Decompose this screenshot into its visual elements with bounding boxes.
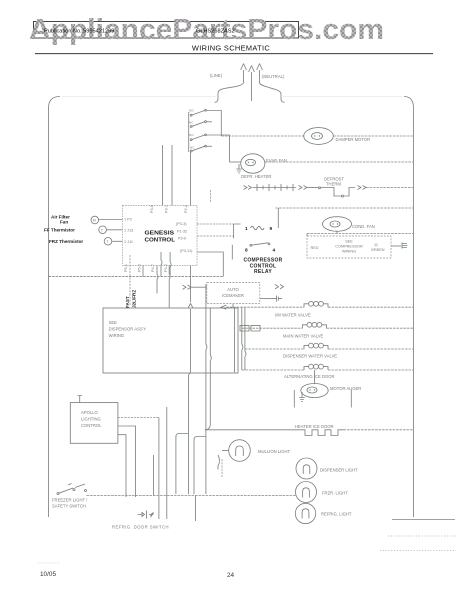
wire genesis bottom pin A xyxy=(142,266,144,277)
dashed stub right of genesis top xyxy=(210,190,212,202)
switch S2 NO contact xyxy=(189,133,206,140)
compressor control relay coil xyxy=(245,226,273,232)
auger bracket left xyxy=(293,390,295,408)
wire left drop A with jog xyxy=(161,252,162,277)
compressor control relay contact xyxy=(245,243,276,254)
svg-text:RED: RED xyxy=(311,246,319,250)
evap fan motor xyxy=(241,154,265,173)
wire bottom right exit xyxy=(392,519,455,521)
wire dispenser water valve to border xyxy=(328,348,414,350)
dispenser assembly box xyxy=(103,308,238,373)
wire stub down 2 xyxy=(166,496,168,520)
wire switch S1 NC stub xyxy=(206,121,212,123)
svg-text:NC: NC xyxy=(190,146,195,150)
wire genesis P3-11 xyxy=(197,252,223,277)
damper motor wire left xyxy=(221,135,303,137)
power plug ground prong xyxy=(249,66,255,102)
bottom right dotted line 2 xyxy=(380,550,456,552)
svg-text:P3-9: P3-9 xyxy=(178,237,186,241)
wire chevron to icemaker box xyxy=(191,286,207,288)
svg-text:WIRING: WIRING xyxy=(342,250,356,254)
dispenser water valve coil xyxy=(304,343,328,349)
svg-text:FF Thermistor: FF Thermistor xyxy=(44,228,75,233)
svg-text:FRZR. LIGHT: FRZR. LIGHT xyxy=(322,491,348,496)
wire long neutral bus across page xyxy=(49,276,224,278)
svg-text:DISPENSER WATER VALVE: DISPENSER WATER VALVE xyxy=(283,354,337,359)
svg-text:(P3-3): (P3-3) xyxy=(176,222,187,226)
valve bus wire A along dispenser box edge xyxy=(242,307,243,370)
svg-text:NO: NO xyxy=(189,133,194,137)
svg-text:1: 1 xyxy=(245,226,248,232)
wire apollo out 2 xyxy=(118,426,136,497)
wire light riser 3 xyxy=(166,407,168,496)
svg-text:1 P2: 1 P2 xyxy=(124,217,132,221)
cabinet outline right border xyxy=(404,97,414,518)
wire stub down 3 xyxy=(195,496,197,522)
svg-text:FREEZER LIGHT /: FREEZER LIGHT / xyxy=(52,498,88,503)
svg-text:P5-1: P5-1 xyxy=(124,264,128,272)
heater ice door element xyxy=(301,430,344,436)
svg-text:WIRING SCHEMATIC: WIRING SCHEMATIC xyxy=(192,44,270,53)
svg-text:DISPENSOR ASS'Y: DISPENSOR ASS'Y xyxy=(109,327,147,332)
footer dots xyxy=(38,562,60,564)
wire riser with jog through dispenser box xyxy=(206,284,207,494)
svg-text:P4-7: P4-7 xyxy=(151,264,155,272)
svg-text:Fan: Fan xyxy=(60,220,68,225)
motor auger xyxy=(301,370,328,398)
svg-text:REFRIG. DOOR SWITCH: REFRIG. DOOR SWITCH xyxy=(112,525,169,530)
svg-text:REFRIG. LIGHT: REFRIG. LIGHT xyxy=(321,512,352,517)
wire main water valve row xyxy=(242,327,303,329)
wire left drop B with jog xyxy=(170,252,171,277)
svg-text:24: 24 xyxy=(227,572,235,579)
air filter fan motor M xyxy=(51,215,99,225)
condenser fan motor xyxy=(323,217,352,232)
compressor wiring dashed box xyxy=(307,236,391,258)
refrigerator light xyxy=(295,503,315,523)
wire switch S2 to evap line xyxy=(206,135,229,162)
svg-text:SEE: SEE xyxy=(109,320,118,325)
svg-text:AUTO: AUTO xyxy=(227,287,239,292)
wire light riser loop A xyxy=(176,434,189,495)
alternating ice door coil xyxy=(304,364,328,370)
label SEE DISPENSOR ASSY WIRING xyxy=(109,320,147,338)
svg-text:P3-6: P3-6 xyxy=(150,205,154,213)
connector plug symbol xyxy=(272,296,282,302)
svg-text:SEE: SEE xyxy=(345,240,353,244)
power plug line prong xyxy=(241,64,247,84)
wire switch S2 NC stub xyxy=(206,145,212,147)
svg-text:GENESIS: GENESIS xyxy=(145,231,175,237)
cabinet outline left border xyxy=(49,97,61,518)
svg-text:DAMPER MOTOR: DAMPER MOTOR xyxy=(336,137,371,142)
svg-text:(NEUTRAL): (NEUTRAL) xyxy=(262,74,285,79)
wire icemaker bottom stub xyxy=(232,304,234,308)
wire line lead from plug xyxy=(215,83,244,102)
ground at evap fan xyxy=(236,164,242,173)
wire heater ice door left with jog xyxy=(205,308,301,430)
svg-text:MAIN WATER VALVE: MAIN WATER VALVE xyxy=(283,334,324,339)
wire alternating ice door row xyxy=(242,369,304,371)
svg-text:10/05: 10/05 xyxy=(40,571,56,578)
svg-text:THERM.: THERM. xyxy=(326,182,342,187)
svg-text:(LINE): (LINE) xyxy=(210,73,223,78)
svg-text:Publication No. 5995421299: Publication No. 5995421299 xyxy=(44,29,114,35)
svg-text:J2L/FRZ: J2L/FRZ xyxy=(132,290,137,308)
svg-text:COMPRESSOR: COMPRESSOR xyxy=(335,245,363,249)
wire relay contact 8 lead xyxy=(231,245,233,260)
dispenser light xyxy=(296,458,317,479)
connector chevrons right of defrost thermostat xyxy=(358,186,367,190)
wire light riser 2 xyxy=(153,455,155,496)
wire apollo out dotted xyxy=(118,416,159,418)
cabinet outline faint top edge xyxy=(62,96,402,98)
wire light riser loop B xyxy=(194,437,206,495)
svg-text:HEATER ICE DOOR: HEATER ICE DOOR xyxy=(295,424,334,429)
wire neutral run xyxy=(276,207,414,209)
wire genesis bottom pin C xyxy=(169,266,170,309)
wire inside dispenser box xyxy=(234,308,236,372)
publication box xyxy=(34,22,299,39)
wire damper motor to right border xyxy=(333,135,413,137)
bottom right dotted line 1 xyxy=(388,535,456,537)
svg-text:(P3-11): (P3-11) xyxy=(180,249,193,253)
defrost heater element xyxy=(253,184,297,191)
wire apollo out 3 xyxy=(118,435,126,497)
svg-text:DEFR. HEATER: DEFR. HEATER xyxy=(241,174,271,179)
defrost thermostat xyxy=(307,187,355,197)
wire air filter fan to genesis xyxy=(99,219,123,221)
wire stub down 1 xyxy=(158,496,160,520)
svg-text:LIGHTING: LIGHTING xyxy=(81,417,101,422)
svg-text:RELAY: RELAY xyxy=(254,269,272,275)
svg-text:9: 9 xyxy=(270,226,273,232)
damper motor xyxy=(304,128,334,145)
svg-text:CONTROL: CONTROL xyxy=(81,423,102,428)
svg-text:1 J11: 1 J11 xyxy=(124,240,133,244)
wire genesis top pin 2 xyxy=(171,145,173,206)
svg-text:WIRING: WIRING xyxy=(109,333,125,338)
connector arrow into dispenser box xyxy=(188,304,192,308)
svg-text:M: M xyxy=(93,219,96,223)
svg-text:SAFETY SWITCH: SAFETY SWITCH xyxy=(52,504,86,509)
svg-text:1 J13: 1 J13 xyxy=(124,229,133,233)
wire relay coil 9 to neutral run xyxy=(277,208,279,228)
wire FF thermistor to genesis xyxy=(106,229,122,231)
wire light riser 1 xyxy=(158,417,160,495)
wire main water valve to border xyxy=(326,327,413,329)
wire icemaker to capacitor connector xyxy=(260,298,272,300)
inline connector blocks xyxy=(240,325,260,331)
svg-text:P3-1: P3-1 xyxy=(165,205,169,213)
svg-text:MOTOR AUGER: MOTOR AUGER xyxy=(330,386,361,391)
valve bus wire B along dispenser box edge xyxy=(245,307,246,370)
chassis ground xyxy=(402,243,408,249)
wire neutral lead from plug xyxy=(260,83,285,102)
genesis control box xyxy=(123,206,198,266)
svg-text:ICEMAKER: ICEMAKER xyxy=(222,293,244,298)
apollo box top stub xyxy=(78,396,83,403)
wire dispenser water valve row xyxy=(245,348,304,350)
wire cond fan row xyxy=(307,233,414,235)
freezer safety switch xyxy=(57,484,87,495)
svg-text:GLHS268ZAS2: GLHS268ZAS2 xyxy=(196,29,235,35)
wire evap fan to right border xyxy=(265,161,414,163)
FF thermistor xyxy=(44,226,106,234)
svg-text:11: 11 xyxy=(374,243,378,247)
svg-text:P2-2: P2-2 xyxy=(184,205,188,213)
svg-text:COND. FAN: COND. FAN xyxy=(352,224,375,229)
power plug neutral prong xyxy=(257,64,263,84)
label APOLLO LIGHTING CONTROL xyxy=(81,410,102,428)
hook near mullion xyxy=(218,455,220,470)
multi switch block bus xyxy=(188,112,190,152)
im water valve row arrow xyxy=(221,305,226,309)
svg-text:NO: NO xyxy=(189,109,194,113)
svg-text:CONTROL: CONTROL xyxy=(145,238,176,244)
wire compressor box to chassis ground xyxy=(391,245,401,247)
wire genesis P3-3 to relay bracket xyxy=(197,223,234,225)
svg-text:FRZ Thermistor: FRZ Thermistor xyxy=(49,239,83,244)
svg-text:ALTERNATING ICE DOOR: ALTERNATING ICE DOOR xyxy=(284,374,335,379)
freezer light xyxy=(296,482,317,503)
wire alternating ice door to border xyxy=(328,369,414,371)
mullion light xyxy=(229,440,251,462)
svg-text:FAST: FAST xyxy=(125,296,130,308)
ground at motor auger xyxy=(299,392,305,402)
apollo lighting control box xyxy=(70,403,118,444)
evap fan wire left xyxy=(230,161,241,163)
relay coil feed bracket xyxy=(234,224,241,238)
svg-text:T: T xyxy=(106,240,109,244)
wire FRZ thermistor to genesis xyxy=(112,240,123,242)
connector chevrons left of defrost heater xyxy=(244,186,252,190)
svg-text:NC: NC xyxy=(189,120,194,124)
svg-text:MULLION LIGHT: MULLION LIGHT xyxy=(258,449,291,454)
im water valve coil xyxy=(304,301,328,307)
switch S1 NC contact xyxy=(189,120,206,127)
wire genesis P1-32 to relay bracket xyxy=(197,235,234,237)
wire im water valve row xyxy=(226,306,304,308)
connector chevrons right of defrost heater xyxy=(299,186,308,190)
wire genesis bottom pin B with jog xyxy=(157,266,158,294)
svg-text:GREEN: GREEN xyxy=(371,248,385,252)
svg-text:P4-2: P4-2 xyxy=(164,264,168,272)
wire riser through dispenser box with connector arrow xyxy=(189,283,191,494)
svg-text:DISPENSER LIGHT: DISPENSER LIGHT xyxy=(320,468,358,473)
wire switch S1 to damper line xyxy=(206,111,221,137)
wire genesis top pin 1 xyxy=(162,145,164,206)
switch S1 NO contact xyxy=(189,109,206,117)
connector chevrons right of icemaker xyxy=(275,285,284,289)
wire defrost row to right border xyxy=(366,187,414,189)
FRZ thermistor xyxy=(49,238,112,246)
title rule xyxy=(35,53,433,55)
wire mullion stub xyxy=(222,450,229,452)
svg-text:8: 8 xyxy=(245,248,248,254)
connector chevrons to icemaker xyxy=(183,285,192,289)
wire genesis bottom pin D xyxy=(190,266,192,284)
label SEE COMPRESSOR WIRING xyxy=(335,240,363,254)
svg-text:I/M WATER VALVE: I/M WATER VALVE xyxy=(275,313,311,318)
wire im water valve to border xyxy=(328,306,414,308)
switch S2 NC contact xyxy=(190,145,206,152)
auto icemaker dashed box xyxy=(207,283,260,304)
svg-text:4: 4 xyxy=(273,248,276,254)
main water valve coil xyxy=(302,322,326,328)
wire freezer switch to freezer light xyxy=(87,495,297,497)
refrigerator door switch xyxy=(138,511,154,519)
auger bracket right xyxy=(350,390,352,408)
svg-text:T: T xyxy=(101,229,104,233)
svg-text:P1-32: P1-32 xyxy=(177,230,187,234)
dashed stub near mullion xyxy=(221,459,223,477)
svg-text:APOLLO: APOLLO xyxy=(81,410,99,415)
dashed boundary above dispenser box xyxy=(129,255,131,305)
svg-text:P5-2: P5-2 xyxy=(138,264,142,272)
label COMPRESSOR CONTROL RELAY xyxy=(243,258,282,275)
wire genesis top pin 3 xyxy=(190,152,192,206)
wire heater ice door to border xyxy=(344,429,414,431)
